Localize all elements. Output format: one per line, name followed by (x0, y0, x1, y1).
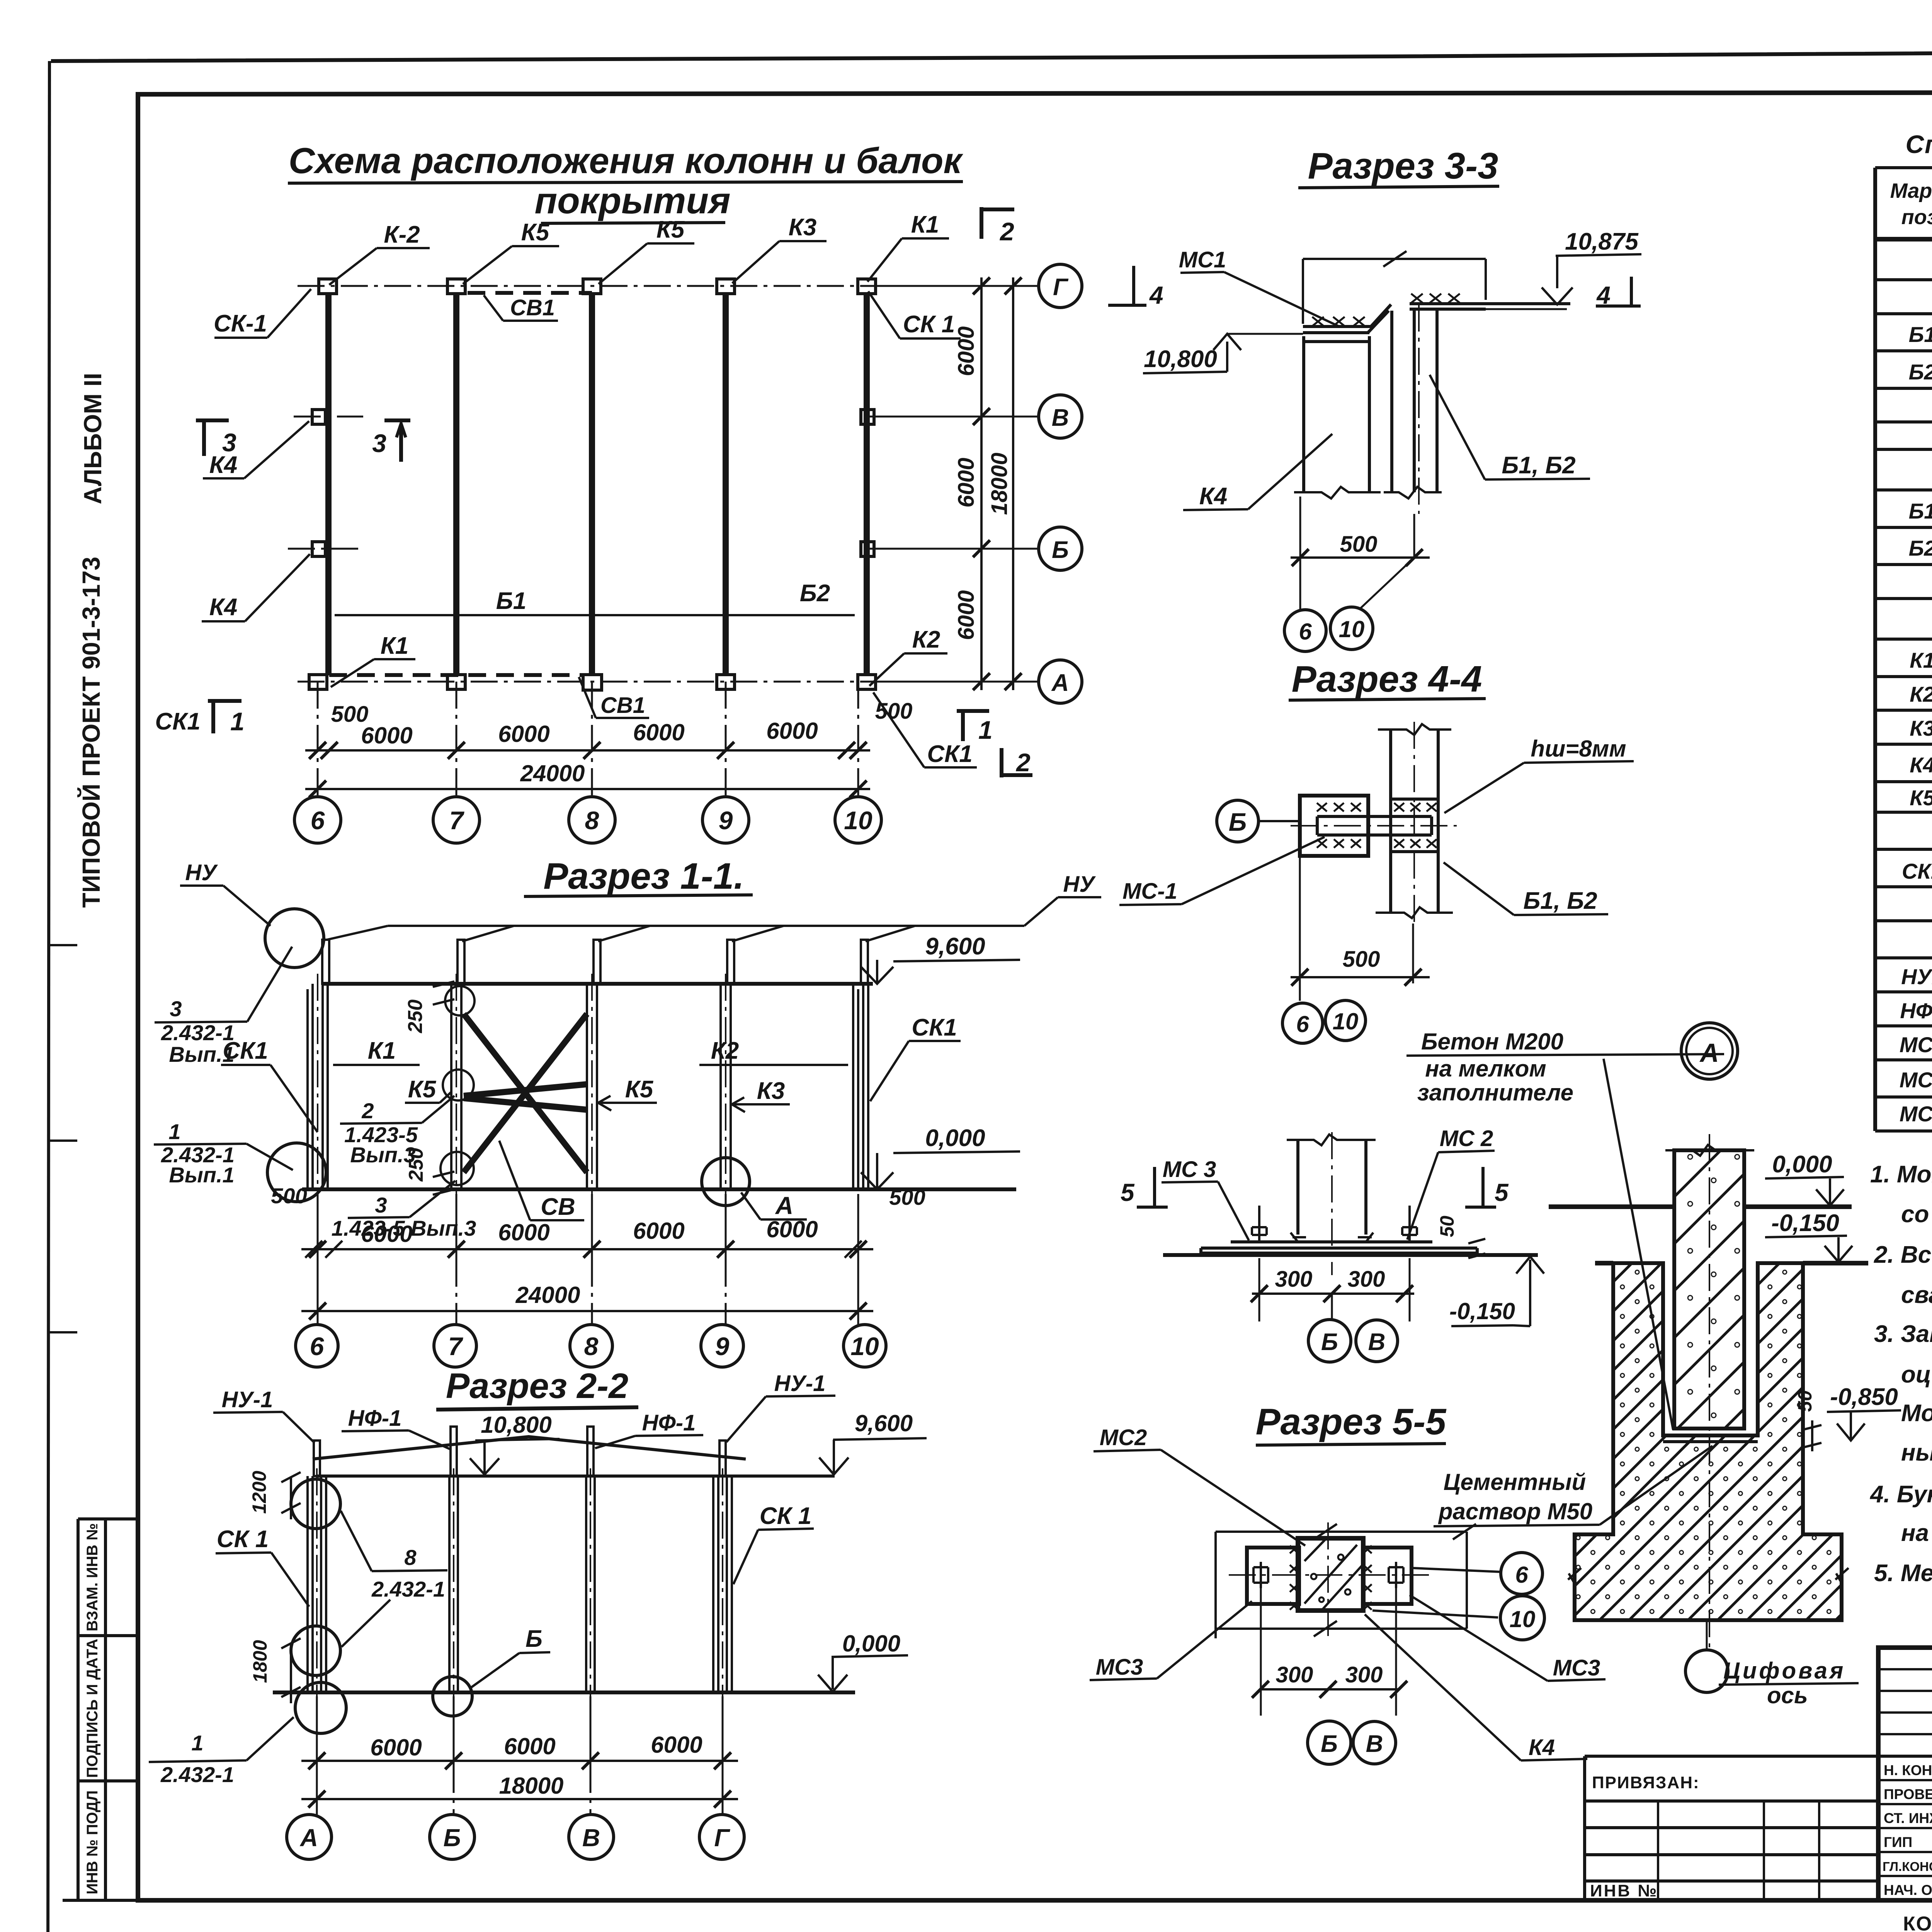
svg-text:К3: К3 (757, 1078, 785, 1104)
svg-text:Б1, Б2: Б1, Б2 (1523, 888, 1597, 914)
svg-text:К1: К1 (1910, 648, 1932, 672)
r55 top dim line (1216, 1532, 1467, 1638)
r55 square dots (1311, 1574, 1316, 1579)
svg-text:Схема расположения колонн и ба: Схема расположения колонн и балок (289, 140, 964, 181)
beams label line (335, 614, 855, 616)
svg-text:1: 1 (230, 707, 245, 736)
svg-text:А: А (1051, 670, 1069, 696)
svg-text:поз.: поз. (1901, 206, 1932, 229)
svg-text:6000: 6000 (954, 590, 979, 640)
svg-text:3. Закладные детали колонн, ба: 3. Закладные детали колонн, балок покрыт… (1874, 1321, 1932, 1347)
svg-text:оцинкованы слоем 0,150мм в про: оцинкованы слоем 0,150мм в процессе изго… (1901, 1361, 1932, 1388)
svg-text:Бетон М200: Бетон М200 (1421, 1029, 1563, 1054)
svg-text:НФ-1: НФ-1 (348, 1406, 402, 1431)
r55 leader to circle 10 (1372, 1611, 1498, 1617)
r33 circle 10 (1330, 607, 1373, 650)
node circle col7 bottom (440, 1152, 474, 1185)
r55 bolt right (1389, 1562, 1403, 1588)
nadstavka stub axis9 (727, 940, 734, 984)
svg-text:К2: К2 (711, 1037, 739, 1064)
ext verticals to circles (1300, 497, 1414, 610)
svg-text:Цифовая: Цифовая (1723, 1658, 1845, 1684)
svg-text:МС3: МС3 (1096, 1655, 1143, 1680)
svg-text:МС1: МС1 (1179, 247, 1226, 272)
section mark 2 top right (981, 207, 1014, 239)
dim line 2 (301, 1310, 873, 1312)
svg-text:10,800: 10,800 (1144, 346, 1217, 372)
svg-text:2: 2 (999, 217, 1014, 246)
svg-text:6000: 6000 (954, 326, 979, 376)
svg-text:К3: К3 (1910, 716, 1932, 740)
svg-text:НАЧ. ОТД.: НАЧ. ОТД. (1884, 1882, 1932, 1898)
r2 axis circle B (430, 1815, 474, 1859)
svg-text:ГИП: ГИП (1884, 1834, 1912, 1850)
svg-text:Монтаж конструкций без оцинков: Монтаж конструкций без оцинкованного пок… (1901, 1400, 1932, 1427)
svg-text:К4: К4 (1529, 1735, 1555, 1760)
circle B callout r44 (1217, 800, 1259, 842)
outer border left (48, 61, 49, 1932)
base line r2 (273, 1690, 855, 1694)
callout circle colB base (433, 1677, 472, 1716)
svg-text:заполнителе: заполнителе (1417, 1080, 1573, 1105)
r2 axis circle G (699, 1815, 744, 1859)
beam B1 axis 6 (325, 294, 332, 675)
svg-text:6000: 6000 (361, 1221, 412, 1247)
node circle col7 top (445, 986, 474, 1015)
right dim ticks (973, 277, 990, 690)
svg-text:СВ1: СВ1 (510, 295, 555, 320)
bottom dim ticks 1 (309, 742, 867, 759)
title block outer (1878, 1648, 1932, 1900)
column K4 r33 (1304, 336, 1369, 492)
column axis6 lines (308, 984, 328, 1189)
axis row G dash-dot (298, 285, 1039, 287)
axis row B dash-dot (288, 548, 1039, 550)
svg-text:1: 1 (168, 1119, 180, 1144)
svg-text:9: 9 (715, 1332, 730, 1361)
svg-text:МС1: МС1 (1900, 1032, 1932, 1057)
svg-text:НФ1: НФ1 (1900, 998, 1932, 1023)
svg-text:Б: Б (1229, 808, 1247, 836)
plan axis circle 10 (835, 797, 881, 843)
column square axis8 row G (583, 279, 601, 294)
svg-text:МС 3: МС 3 (1163, 1157, 1216, 1182)
svg-text:Б2: Б2 (800, 580, 830, 607)
svg-text:4. Буквенные индексы в обознач: 4. Буквенные индексы в обозначениях бало… (1869, 1481, 1932, 1508)
svg-text:СК1: СК1 (927, 741, 972, 767)
base flange right (1358, 1233, 1373, 1242)
svg-text:Б: Б (1321, 1329, 1338, 1355)
svg-text:6: 6 (310, 1332, 325, 1361)
svg-text:В: В (1366, 1731, 1383, 1757)
column centerlines dash-dot (318, 974, 726, 1194)
svg-text:3: 3 (170, 997, 182, 1021)
axis 9 vertical dash-dot below (725, 682, 727, 797)
svg-text:3: 3 (375, 1193, 387, 1217)
plate centerline (1291, 825, 1457, 827)
beams B1 B2 r33 (1392, 311, 1437, 492)
svg-text:А: А (775, 1192, 793, 1219)
r55 bolt left (1253, 1562, 1268, 1588)
connection plate (1317, 816, 1432, 835)
svg-text:Б1: Б1 (496, 588, 526, 614)
weld x top left (1317, 803, 1361, 811)
fachwerk square K4 axis6 row B (312, 542, 325, 556)
svg-text:СВ1: СВ1 (600, 693, 645, 718)
slab step diagonal (1368, 304, 1391, 333)
svg-text:В: В (1052, 405, 1069, 431)
svg-text:5. Металлическая связь СВ 1 р: 5. Металлическая связь СВ 1 разработана … (1874, 1560, 1932, 1587)
svg-text:6000: 6000 (504, 1733, 555, 1759)
svg-text:ИНВ №: ИНВ № (1590, 1881, 1658, 1900)
weld x-marks left slab (1312, 317, 1365, 326)
r55 left plate (1247, 1548, 1299, 1604)
axis 7 vertical dash-dot below (456, 682, 457, 797)
table horizontal lines (1875, 168, 1932, 1131)
svg-text:К1: К1 (381, 633, 409, 659)
svg-text:6000: 6000 (633, 719, 684, 745)
svg-text:300: 300 (1348, 1267, 1385, 1292)
beam B2 axis 10 (864, 294, 870, 675)
svg-text:А: А (299, 1824, 318, 1852)
svg-text:К4: К4 (1199, 483, 1228, 510)
column square axis9 row G (717, 279, 735, 294)
nadstavka stub axis6 (322, 940, 329, 984)
svg-text:6: 6 (1299, 619, 1312, 645)
svg-text:К5: К5 (521, 219, 550, 246)
svg-text:50: 50 (1436, 1216, 1458, 1237)
plan title underline 1 (288, 182, 963, 183)
svg-text:2.432-1: 2.432-1 (160, 1762, 234, 1787)
dim extension verticals (318, 1194, 858, 1321)
axis circle verticals (318, 1260, 858, 1325)
column B2 lines (449, 1476, 458, 1692)
svg-text:1800: 1800 (249, 1640, 271, 1683)
ground line 0.000 (1549, 1204, 1852, 1209)
plan axis circle 8 (569, 797, 615, 843)
r55 weld x left edge (1290, 1546, 1298, 1610)
weld x-marks right slab (1411, 294, 1460, 303)
column square axis6 row A (309, 675, 327, 689)
brace SV1 dashed bottom (329, 673, 583, 677)
svg-text:СК1: СК1 (155, 708, 200, 735)
svg-text:НУ: НУ (185, 860, 218, 885)
svg-text:ось: ось (1767, 1682, 1808, 1708)
svg-text:СВ: СВ (541, 1194, 575, 1220)
stub col B2 (451, 1427, 457, 1476)
dim line 1 (301, 1248, 873, 1250)
bottom dim line 1 (305, 749, 870, 752)
svg-text:НУ1: НУ1 (1901, 964, 1932, 989)
stub col V (587, 1427, 594, 1476)
svg-text:2.432-1: 2.432-1 (371, 1577, 445, 1601)
ext verticals r44 (1300, 856, 1413, 1001)
base line (302, 1187, 1016, 1191)
row line under top rows (1878, 1755, 1932, 1758)
plan title underline 2 (541, 223, 725, 223)
NU leader branches (327, 926, 915, 941)
svg-text:6000: 6000 (651, 1732, 702, 1758)
r55 right plate (1363, 1548, 1412, 1604)
bottom dim line 2 (305, 788, 870, 790)
svg-text:Б1, Б2: Б1, Б2 (1502, 452, 1575, 479)
svg-text:24000: 24000 (515, 1282, 580, 1308)
col centerlines r2 (317, 1468, 723, 1696)
anchor bolt left (1252, 1206, 1267, 1242)
svg-text:К2: К2 (1910, 682, 1932, 706)
svg-text:НУ: НУ (1063, 872, 1096, 897)
r55 centerlines (1229, 1522, 1430, 1642)
r2 axis circle A (287, 1815, 332, 1859)
svg-text:0,000: 0,000 (1772, 1151, 1832, 1178)
svg-text:-0,850: -0,850 (1830, 1384, 1898, 1410)
thin top rows (1878, 1669, 1932, 1734)
svg-text:9,600: 9,600 (855, 1410, 913, 1436)
svg-text:300: 300 (1275, 1267, 1313, 1292)
dim ticks 1 (309, 1241, 867, 1258)
column square axis10 row A (858, 675, 876, 689)
right dim line 6000s (980, 277, 983, 690)
dim line above slab (1303, 259, 1486, 324)
r2 circle verticals (317, 1766, 723, 1815)
svg-text:500: 500 (1343, 947, 1380, 972)
svg-text:9,600: 9,600 (925, 933, 985, 960)
svg-text:В: В (582, 1824, 600, 1852)
column square axis6 row G (319, 279, 337, 294)
r55 bottom dim line (1216, 1628, 1467, 1630)
beams centerline (1418, 304, 1420, 514)
svg-text:6: 6 (311, 806, 325, 835)
roof sloped top chord (313, 1437, 746, 1459)
slab level extension (1486, 308, 1567, 310)
svg-text:К5: К5 (656, 216, 685, 243)
svg-text:hш=8мм: hш=8мм (1531, 736, 1626, 762)
section mark 2 bottom right (1002, 748, 1032, 777)
left border fold ticks (48, 945, 77, 1332)
r44 circle 6 (1282, 1003, 1323, 1043)
svg-text:К5: К5 (408, 1076, 437, 1103)
svg-text:ПРОВЕР.: ПРОВЕР. (1884, 1786, 1932, 1802)
svg-text:МС2: МС2 (1100, 1425, 1147, 1450)
beam bottom break (1376, 907, 1453, 918)
nadstavka stub axis8 (594, 940, 600, 984)
r44 circle 10 (1325, 1000, 1366, 1041)
r1 axis circle 7 (434, 1325, 476, 1367)
svg-text:Б2: Б2 (1909, 536, 1932, 560)
brace flat pair (464, 1084, 587, 1110)
svg-text:6000: 6000 (766, 1216, 818, 1242)
fachwerk square K4 axis10 row V (861, 410, 874, 424)
svg-text:7: 7 (448, 1332, 464, 1361)
svg-text:МС3: МС3 (1553, 1655, 1600, 1680)
svg-text:4: 4 (1149, 281, 1163, 309)
svg-text:раствор М50: раствор М50 (1438, 1498, 1592, 1524)
column axis8 lines (587, 984, 597, 1189)
callout circle colA mid (291, 1626, 340, 1675)
axis circle G (1039, 264, 1082, 308)
column square axis9 row A (717, 675, 735, 689)
brace SV1 dashed top (468, 291, 592, 295)
svg-text:ВЗАМ. ИНВ №: ВЗАМ. ИНВ № (84, 1523, 101, 1631)
stub col A (314, 1440, 320, 1476)
svg-text:10: 10 (1510, 1606, 1536, 1632)
column square axis7 row A (447, 675, 465, 689)
svg-text:К4: К4 (1910, 753, 1932, 777)
svg-text:6000: 6000 (633, 1218, 684, 1244)
svg-text:50: 50 (1794, 1390, 1816, 1412)
section mark 3 left (196, 420, 229, 456)
svg-text:8: 8 (584, 1332, 599, 1361)
svg-text:СК 1: СК 1 (760, 1503, 812, 1529)
callout circle colA 1200 (291, 1479, 340, 1529)
column A lines (308, 1476, 326, 1692)
bottom dim ticks 2 (309, 781, 867, 798)
svg-text:К5: К5 (625, 1076, 654, 1103)
svg-text:0,000: 0,000 (842, 1631, 900, 1656)
svg-text:2. Все неоговоренные монтажные: 2. Все неоговоренные монтажные швы прини… (1874, 1242, 1932, 1268)
svg-text:1: 1 (978, 716, 993, 744)
slab left segment (1303, 327, 1372, 333)
svg-text:Б1: Б1 (1909, 499, 1932, 523)
svg-text:МС3: МС3 (1900, 1102, 1932, 1126)
section mark 1 bottom right (957, 711, 989, 741)
svg-text:6: 6 (1515, 1562, 1528, 1588)
svg-text:-0,150: -0,150 (1771, 1210, 1839, 1236)
outer border top (51, 49, 1932, 61)
nadstavka stub axis7 (457, 940, 464, 984)
column square axis8 row A (583, 675, 602, 690)
base circles B V (1331, 1294, 1333, 1319)
svg-text:СК1: СК1 (1902, 859, 1932, 883)
svg-text:7: 7 (449, 806, 465, 835)
section mark 3 middle arrow (384, 420, 410, 462)
axis row A dash-dot (298, 681, 1039, 683)
svg-text:НФ-1: НФ-1 (642, 1410, 696, 1435)
svg-text:9: 9 (719, 806, 733, 835)
svg-text:сварку производить электродами: сварку производить электродами типа Э42,… (1901, 1282, 1932, 1308)
base plate top (1231, 1240, 1432, 1243)
svg-text:0,000: 0,000 (925, 1125, 985, 1151)
r1 axis circle 8 (570, 1325, 612, 1367)
svg-text:К2: К2 (912, 626, 940, 653)
svg-text:6000: 6000 (361, 723, 412, 748)
svg-text:ТИПОВОЙ ПРОЕКТ 901-3-173: ТИПОВОЙ ПРОЕКТ 901-3-173 (77, 557, 105, 908)
column axis9 lines (721, 984, 731, 1189)
column square axis10 row G (858, 279, 876, 294)
column V lines (586, 1476, 595, 1692)
svg-text:на мелком: на мелком (1425, 1056, 1546, 1082)
callout circle axis6 top (265, 909, 324, 968)
weld x bottom right (1394, 839, 1437, 848)
NU leader top line (388, 925, 1024, 927)
dim line 2 r2 (301, 1798, 738, 1800)
svg-text:Разрез 2-2: Разрез 2-2 (446, 1366, 628, 1406)
svg-text:покрытия: покрытия (534, 180, 730, 221)
brace X diagonal 2 (464, 1014, 587, 1172)
section mark 1 bottom left flag (208, 701, 241, 733)
r2 axis circle V (569, 1815, 614, 1859)
callout circle colA base (295, 1682, 346, 1733)
svg-text:Цементный: Цементный (1444, 1469, 1586, 1495)
concrete column hatched (1674, 1150, 1744, 1429)
foundation body hatched (1575, 1263, 1842, 1620)
axis row V dash-dot (294, 416, 1039, 418)
svg-text:1200: 1200 (248, 1471, 270, 1514)
svg-text:1: 1 (191, 1731, 203, 1755)
svg-text:ИНВ № ПОДЛ: ИНВ № ПОДЛ (84, 1790, 101, 1894)
svg-text:6000: 6000 (370, 1735, 422, 1760)
svg-text:Б2: Б2 (1909, 360, 1932, 384)
svg-text:2: 2 (361, 1099, 374, 1123)
axis 10 vertical dash-dot below (857, 682, 859, 797)
svg-text:5: 5 (1121, 1179, 1135, 1206)
base col break top (1287, 1134, 1376, 1145)
svg-text:Б1: Б1 (1909, 322, 1932, 347)
svg-text:К3: К3 (789, 214, 817, 241)
column centerline (1709, 1134, 1710, 1649)
svg-text:НУ-1: НУ-1 (774, 1371, 826, 1396)
r1 axis circle 10 (844, 1325, 886, 1367)
svg-text:К4: К4 (209, 594, 238, 621)
plan axis circle 9 (702, 797, 749, 843)
column axis10 lines (853, 984, 868, 1189)
svg-text:МС2: МС2 (1900, 1068, 1932, 1092)
svg-text:6000: 6000 (498, 721, 549, 747)
svg-text:6000: 6000 (766, 718, 818, 744)
svg-text:К5: К5 (1910, 786, 1932, 810)
right dim 18000 ticks (1005, 277, 1022, 690)
node circle col7 mid (443, 1070, 474, 1100)
r55 square diagonals (1304, 1539, 1363, 1611)
r55 center square column (1298, 1538, 1363, 1611)
svg-text:СК1: СК1 (223, 1037, 268, 1064)
svg-text:18000: 18000 (499, 1773, 564, 1799)
right dim line 18000 (1012, 277, 1014, 690)
base col verticals (1298, 1140, 1366, 1235)
svg-text:18000: 18000 (987, 452, 1012, 515)
r33 circle 6 (1284, 610, 1326, 651)
svg-text:Б: Б (1052, 537, 1069, 563)
axis 8 vertical dash-dot below (591, 682, 593, 797)
section mark 4 left (1108, 266, 1146, 305)
svg-text:10: 10 (1333, 1009, 1359, 1034)
anchor bolt right (1402, 1206, 1417, 1242)
svg-text:500: 500 (875, 699, 913, 724)
beam verticals r44 (1391, 730, 1438, 913)
table vertical lines (1873, 168, 1877, 1131)
axis circle A (1039, 660, 1082, 703)
r55 circle 6 (1501, 1553, 1543, 1594)
left strip boxes (63, 1519, 138, 1900)
break marks lower block (1568, 1568, 1849, 1584)
svg-text:24000: 24000 (520, 760, 585, 786)
svg-text:10: 10 (844, 806, 872, 835)
beam B1 axis 7 (453, 294, 459, 675)
base flange left (1291, 1233, 1306, 1242)
roof line (322, 982, 873, 986)
svg-text:Марка: Марка (1890, 179, 1932, 202)
svg-text:К1: К1 (368, 1037, 396, 1064)
svg-text:на наличие дополнительных закл: на наличие дополнительных закладных дета… (1901, 1520, 1932, 1546)
beam B1 axis 9 (723, 294, 729, 675)
ground line -0.150 (1595, 1261, 1868, 1265)
svg-text:В: В (1368, 1329, 1386, 1355)
name row lines (1878, 1780, 1932, 1876)
svg-text:Н. КОНТР.: Н. КОНТР. (1884, 1762, 1932, 1778)
stub col G (719, 1440, 726, 1476)
svg-text:СК-1: СК-1 (214, 310, 267, 337)
ground line base detail (1163, 1253, 1538, 1257)
